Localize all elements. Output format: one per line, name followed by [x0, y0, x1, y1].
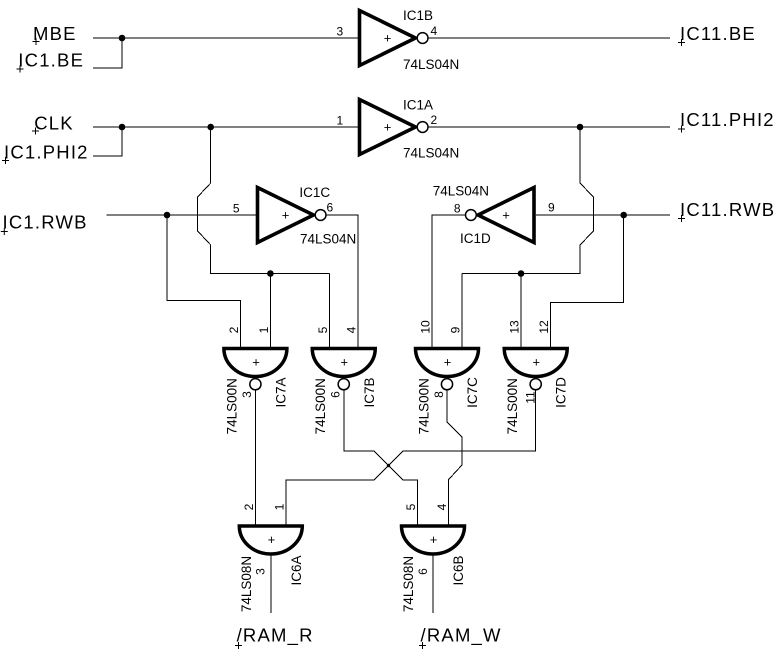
wire IC1.RWB to IC1C pin 5 [107, 214, 258, 216]
svg-text:74LS00N: 74LS00N [313, 378, 328, 434]
inverter IC1B 74LS04N [360, 11, 429, 66]
svg-text:+: + [444, 355, 452, 370]
svg-text:5: 5 [233, 202, 240, 216]
wire CLK net jog down to IC7A/IC7B inputs [198, 127, 330, 274]
junction IC7D pin 13 branch [518, 270, 525, 277]
net label IC1.BE [17, 50, 85, 73]
svg-text:3: 3 [337, 25, 344, 39]
wire IC1C pin 6 output to IC7B pin 4 [326, 215, 358, 348]
net label IC11.RWB [678, 199, 775, 222]
svg-text:3: 3 [240, 391, 254, 398]
wire IC1B pin 4 output to IC11.BE [428, 37, 670, 39]
svg-text:1: 1 [273, 503, 287, 510]
svg-text:IC1.BE: IC1.BE [18, 50, 84, 71]
svg-text:8: 8 [454, 202, 461, 216]
NAND gate IC7B 74LS00N [312, 349, 375, 390]
svg-text:4: 4 [431, 24, 438, 38]
svg-text:/RAM_R: /RAM_R [237, 625, 314, 647]
svg-text:8: 8 [432, 391, 446, 398]
wire IC7C pin 8 output jog to IC6B pin 4 [447, 390, 462, 527]
svg-text:+: + [502, 207, 510, 222]
net label CLK [32, 113, 74, 135]
svg-text:74LS04N: 74LS04N [403, 146, 459, 161]
svg-text:CLK: CLK [34, 113, 74, 134]
junction IC1.RWB branch [164, 212, 171, 219]
junction IC7A pin 1 branch [267, 270, 274, 277]
crossover point [387, 464, 390, 467]
svg-text:IC1.PHI2: IC1.PHI2 [4, 142, 89, 163]
svg-text:12: 12 [537, 320, 551, 334]
wire RWB branch to IC7D pin 12 [550, 215, 623, 348]
net label /RAM_W [419, 625, 502, 650]
wire to IC7B pin 5 [328, 274, 330, 349]
svg-text:IC11.BE: IC11.BE [680, 23, 756, 44]
svg-text:+: + [341, 355, 349, 370]
wire IC1A pin 2 output to IC11.PHI2 [428, 126, 670, 128]
svg-text:6: 6 [329, 391, 343, 398]
net label IC1.RWB [1, 212, 88, 236]
junction CLK/IC1.PHI2 [119, 124, 126, 131]
wire IC7A pin 3 output to IC6A pin 2 [254, 390, 256, 527]
wire RWB branch to IC7A pin 2 [167, 215, 240, 348]
svg-text:2: 2 [242, 503, 256, 510]
svg-text:6: 6 [327, 201, 334, 215]
svg-text:IC7B: IC7B [362, 377, 377, 407]
svg-text:IC7D: IC7D [554, 377, 569, 408]
net label MBE [33, 23, 77, 45]
svg-text:3: 3 [254, 568, 268, 575]
svg-text:9: 9 [449, 326, 463, 333]
svg-text:MBE: MBE [33, 23, 77, 44]
svg-text:+: + [533, 355, 541, 370]
inverter IC1C 74LS04N [258, 188, 327, 243]
svg-text:74LS04N: 74LS04N [433, 184, 489, 199]
wire to IC7A pin 1 [269, 274, 271, 349]
svg-text:2: 2 [227, 326, 241, 333]
svg-text:74LS08N: 74LS08N [401, 556, 416, 612]
junction CLK branch to NANDs [207, 124, 214, 131]
junction IC11.RWB branch [620, 212, 627, 219]
wire MBE input to IC1B pin 3 [93, 37, 360, 39]
svg-text:IC1B: IC1B [403, 8, 433, 23]
svg-text:1: 1 [337, 114, 344, 128]
wire PHI2 net jog down to IC7C/IC7D inputs [462, 127, 593, 274]
svg-text:5: 5 [404, 503, 418, 510]
wire IC7B pin 6 output crossing to IC6B pin 5 [344, 390, 418, 527]
wire IC1.BE to MBE junction [93, 38, 122, 68]
wire IC6B pin 6 output to /RAM_W [432, 554, 434, 613]
junction PHI2 branch [577, 124, 584, 131]
svg-text:74LS00N: 74LS00N [225, 378, 240, 434]
wire IC1D pin 8 output to IC7C pin 10 [432, 215, 465, 348]
net label /RAM_R [235, 625, 314, 650]
svg-text:IC7A: IC7A [273, 377, 288, 407]
svg-text:74LS08N: 74LS08N [239, 556, 254, 612]
AND gate IC6A 74LS08N [239, 526, 302, 554]
svg-text:+: + [384, 119, 392, 134]
svg-text:74LS00N: 74LS00N [505, 378, 520, 434]
wire IC11.RWB to IC1D pin 9 [536, 214, 670, 216]
svg-text:/RAM_W: /RAM_W [421, 625, 502, 647]
wire IC1.PHI2 to CLK junction [93, 127, 122, 156]
svg-text:IC6B: IC6B [451, 555, 466, 585]
svg-text:4: 4 [435, 503, 449, 510]
wire to IC7D pin 13 [520, 274, 522, 349]
svg-text:+: + [384, 30, 392, 45]
svg-text:+: + [268, 532, 276, 547]
net label IC11.BE [678, 23, 756, 46]
wire IC7D pin 11 output crossing to IC6A pin 1 [286, 390, 536, 527]
svg-text:5: 5 [316, 326, 330, 333]
svg-text:1: 1 [257, 326, 271, 333]
svg-text:10: 10 [419, 320, 433, 334]
net label IC11.PHI2 [678, 109, 775, 133]
wire CLK input to IC1A pin 1 [93, 126, 360, 128]
svg-text:+: + [252, 355, 260, 370]
wire IC6A pin 3 output to /RAM_R [270, 554, 272, 613]
junction MBE/IC1.BE [119, 35, 126, 42]
net label IC1.PHI2 [2, 142, 89, 165]
svg-text:IC1D: IC1D [460, 231, 491, 246]
svg-text:74LS00N: 74LS00N [416, 378, 431, 434]
svg-text:IC1C: IC1C [299, 185, 330, 200]
svg-text:+: + [282, 207, 290, 222]
svg-text:2: 2 [431, 113, 438, 127]
inverter IC1D 74LS04N [466, 188, 535, 243]
svg-text:IC6A: IC6A [289, 555, 304, 585]
AND gate IC6B 74LS08N [402, 526, 465, 554]
svg-text:IC11.PHI2: IC11.PHI2 [680, 109, 775, 130]
NAND gate IC7C 74LS00N [416, 349, 479, 390]
svg-text:IC1A: IC1A [403, 98, 433, 113]
svg-text:IC7C: IC7C [465, 377, 480, 408]
svg-text:+: + [430, 532, 438, 547]
svg-text:13: 13 [508, 320, 522, 334]
svg-text:6: 6 [416, 568, 430, 575]
svg-text:74LS04N: 74LS04N [300, 232, 356, 247]
NAND gate IC7A 74LS00N [224, 349, 287, 390]
wire to IC7C pin 9 [461, 274, 463, 349]
svg-text:4: 4 [345, 326, 359, 333]
svg-text:IC1.RWB: IC1.RWB [3, 212, 88, 233]
NAND gate IC7D 74LS00N [504, 349, 567, 390]
svg-text:74LS04N: 74LS04N [403, 57, 459, 72]
svg-text:IC11.RWB: IC11.RWB [680, 199, 775, 220]
inverter IC1A 74LS04N [360, 100, 429, 155]
svg-text:9: 9 [548, 201, 555, 215]
